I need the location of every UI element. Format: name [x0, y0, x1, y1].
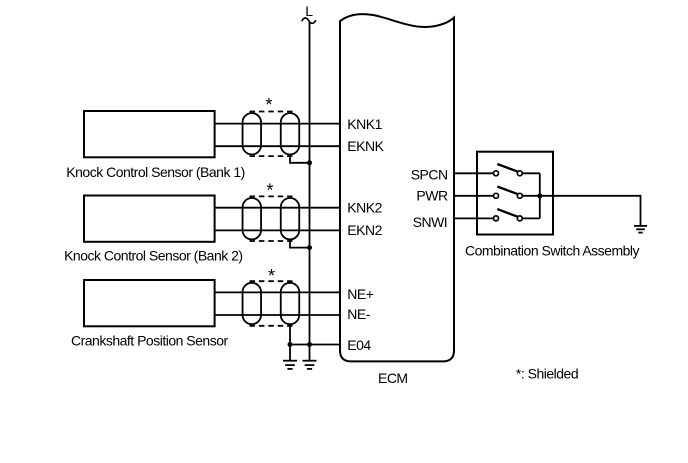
- svg-text:*: *: [268, 266, 275, 286]
- switch box Combination Switch Assembly: [477, 152, 553, 235]
- sensor box Crankshaft Position Sensor: [84, 280, 215, 326]
- wire SNWI: [454, 217, 496, 219]
- wire to ground G3: [540, 196, 641, 226]
- svg-text:L: L: [305, 3, 313, 19]
- svg-text:SPCN: SPCN: [411, 166, 448, 182]
- node junction switch bus and PWR output: [537, 193, 542, 198]
- svg-text:PWR: PWR: [416, 188, 448, 204]
- node junction shield S1 drain on bus: [307, 160, 312, 165]
- shield S1 dashed outline: [250, 112, 293, 157]
- switch SW1 blade: [497, 164, 517, 172]
- wire PWR: [454, 195, 496, 197]
- svg-text:Combination Switch Assembly: Combination Switch Assembly: [465, 243, 640, 259]
- sensor box Knock Control Sensor (Bank 2): [84, 196, 215, 242]
- wire switch output bus: [539, 173, 541, 218]
- svg-text:Knock Control Sensor (Bank 1): Knock Control Sensor (Bank 1): [66, 164, 244, 180]
- op ECM box: [340, 14, 454, 361]
- wire switch3 output link: [520, 217, 540, 219]
- svg-text:*: *: [265, 95, 272, 115]
- wire EKNK: [215, 145, 340, 147]
- svg-text:EKN2: EKN2: [347, 222, 382, 238]
- svg-text:EKNK: EKNK: [347, 138, 384, 154]
- wire SPCN: [454, 172, 496, 174]
- shield S2 twisted pair capsule left: [243, 198, 261, 239]
- wire NE+: [215, 291, 340, 293]
- node junction shield S2 drain on bus: [307, 245, 312, 250]
- sensor box Knock Control Sensor (Bank 1): [84, 111, 215, 157]
- wire EKN2: [215, 229, 340, 231]
- svg-text:NE-: NE-: [347, 306, 370, 322]
- switch SW3 blade: [497, 209, 517, 217]
- switch SW1 terminal right: [517, 171, 522, 176]
- node L break symbol: [302, 18, 316, 23]
- svg-text:*: Shielded: *: Shielded: [516, 365, 578, 381]
- shield S3 twisted pair capsule left: [243, 283, 261, 324]
- ground G3: [634, 226, 647, 233]
- shield S3 twisted pair capsule right: [281, 283, 300, 324]
- wire KNK1: [215, 123, 340, 125]
- svg-text:Crankshaft Position Sensor: Crankshaft Position Sensor: [71, 333, 228, 349]
- node junction E04 and bus L: [307, 342, 312, 347]
- switch SW2 terminal left: [494, 193, 499, 198]
- wire shield S1 drain: [290, 155, 310, 163]
- wire KNK2: [215, 207, 340, 209]
- svg-text:KNK2: KNK2: [347, 199, 382, 215]
- wire switch2 output link: [520, 195, 540, 197]
- switch SW3 terminal left: [494, 216, 499, 221]
- wire NE-: [215, 314, 340, 316]
- svg-text:*: *: [266, 181, 273, 201]
- shield S1 twisted pair capsule right: [281, 113, 300, 154]
- shield S1 twisted pair capsule left: [243, 113, 261, 154]
- shield S2 dashed outline: [250, 196, 293, 241]
- node junction E04 and S3 drain: [288, 342, 293, 347]
- wire E04 to grounds: [290, 344, 340, 346]
- switch SW2 blade: [497, 187, 517, 195]
- svg-text:ECM: ECM: [378, 370, 408, 386]
- switch SW2 terminal right: [517, 193, 522, 198]
- svg-text:E04: E04: [347, 337, 371, 353]
- wire shield S3 drain to ground: [289, 324, 291, 360]
- ground G2 (bus L): [303, 361, 317, 369]
- svg-text:NE+: NE+: [347, 286, 373, 302]
- switch SW1 terminal left: [494, 171, 499, 176]
- shield S3 dashed outline: [250, 281, 293, 326]
- wire shield S2 drain: [290, 239, 310, 247]
- svg-text:SNWI: SNWI: [413, 214, 448, 230]
- ground G1 (shield drain): [283, 361, 297, 369]
- wire shield ground bus (net L vertical): [309, 22, 311, 361]
- shield S2 twisted pair capsule right: [281, 198, 300, 239]
- switch SW3 terminal right: [517, 216, 522, 221]
- svg-text:Knock Control Sensor (Bank 2): Knock Control Sensor (Bank 2): [64, 248, 242, 264]
- wire switch1 output link: [520, 172, 540, 174]
- svg-text:KNK1: KNK1: [347, 116, 382, 132]
